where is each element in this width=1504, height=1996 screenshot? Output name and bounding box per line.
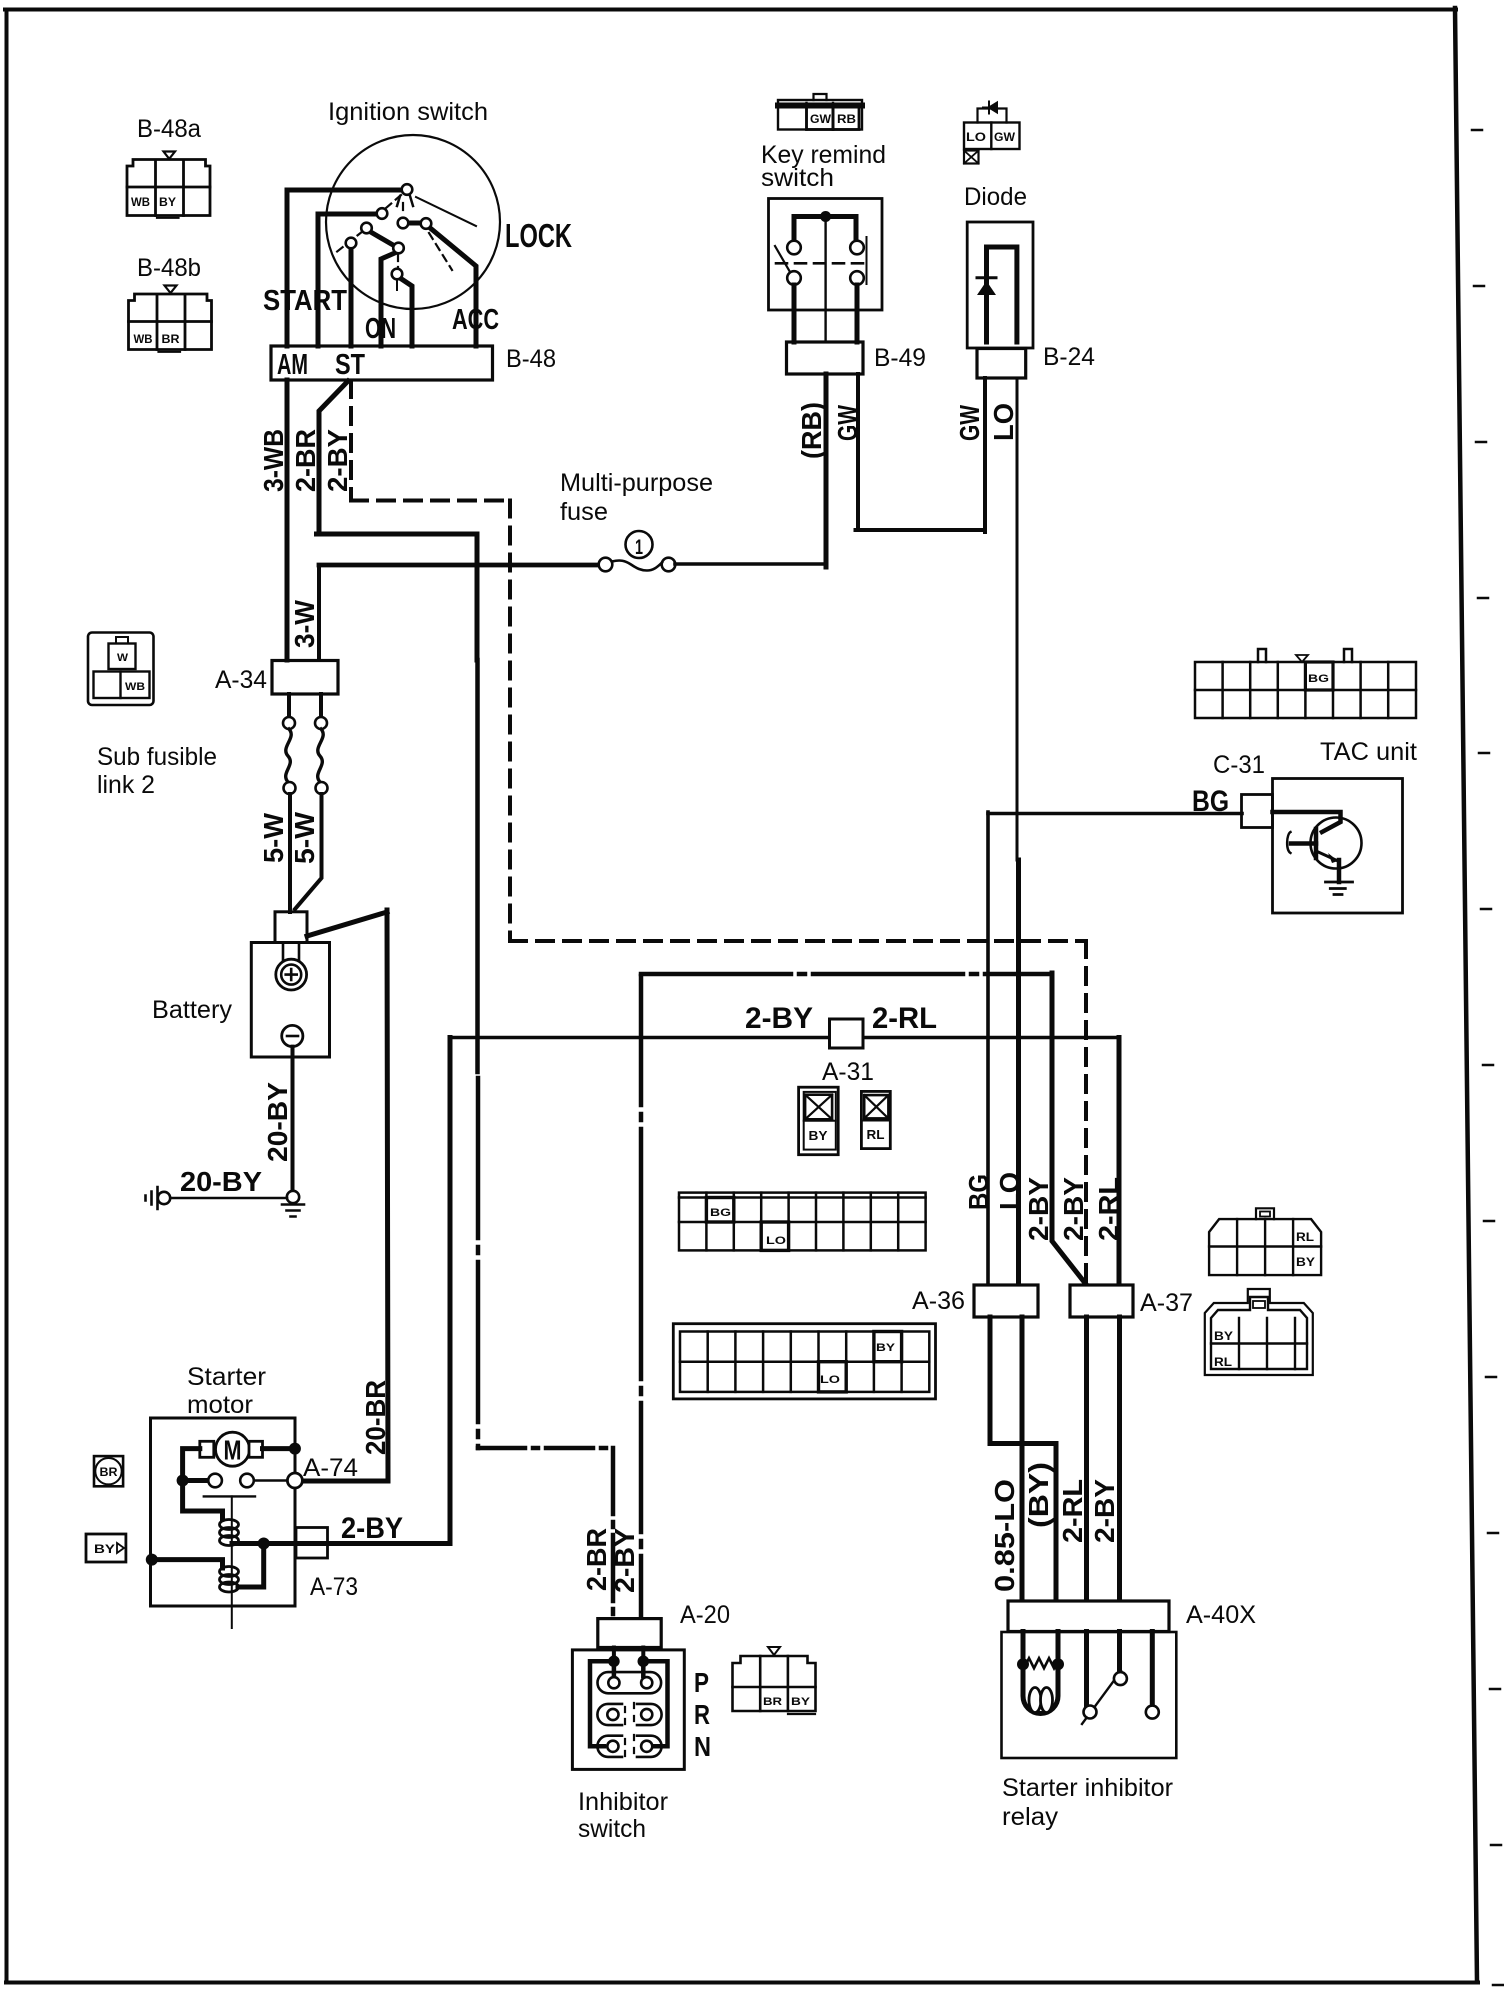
solenoid contact row <box>188 1478 209 1483</box>
pull-in coil <box>220 1520 239 1546</box>
connector grid RL/BY (4x2) <box>1209 1208 1321 1275</box>
wire junction down to hold coil bottom <box>238 1544 264 1588</box>
diode top connector (LO GW cells) <box>964 102 1020 164</box>
wire 5-W left down to battery <box>288 794 292 912</box>
svg-text:fuse: fuse <box>560 498 608 526</box>
R contact stadium (split) <box>597 1703 661 1725</box>
junction dot motor/rail <box>289 1443 301 1455</box>
svg-text:A-74: A-74 <box>303 1454 358 1482</box>
connector symbol BR (square with circle) <box>94 1456 123 1486</box>
relay coil feed wires <box>1023 1632 1058 1662</box>
svg-text:Inhibitor: Inhibitor <box>578 1788 668 1816</box>
wires A-20 into inhibitor switch <box>614 1648 643 1663</box>
wire BG from riser to C-31 <box>988 812 1242 816</box>
svg-text:B-48b: B-48b <box>137 254 201 282</box>
svg-text:5-W: 5-W <box>289 811 320 864</box>
connector A-37 box <box>1070 1285 1133 1317</box>
solenoid plunger line <box>231 1496 233 1628</box>
contact strip right <box>866 237 868 284</box>
svg-text:WB: WB <box>125 681 145 693</box>
resistor (relay) <box>1026 1658 1057 1668</box>
svg-text:Starter inhibitor: Starter inhibitor <box>1002 1774 1173 1802</box>
svg-text:2-RL: 2-RL <box>872 1002 937 1035</box>
svg-text:BG: BG <box>963 1174 994 1210</box>
wire coil output to A-73 <box>232 1541 296 1546</box>
fuse number 1 circled <box>626 531 653 558</box>
svg-text:Sub fusible: Sub fusible <box>97 743 217 771</box>
svg-text:ACC: ACC <box>452 304 499 336</box>
svg-text:B-24: B-24 <box>1043 343 1095 371</box>
svg-text:RB: RB <box>837 114 856 126</box>
svg-text:RL: RL <box>1214 1357 1232 1369</box>
svg-text:Diode: Diode <box>964 183 1027 211</box>
svg-text:2-BY: 2-BY <box>341 1512 403 1545</box>
wire centre contact bar <box>406 221 423 226</box>
svg-text:2-BY: 2-BY <box>322 429 353 492</box>
svg-text:LO: LO <box>766 1235 787 1247</box>
svg-text:2-RL: 2-RL <box>1093 1177 1124 1241</box>
junction dot box edge <box>146 1554 158 1566</box>
wire 2-BY / 2-RL main horizontal <box>450 1036 1119 1040</box>
svg-text:20-BR: 20-BR <box>360 1380 391 1455</box>
wire 2-RL (A-37 to A-40X) <box>1084 1317 1089 1601</box>
svg-text:link 2: link 2 <box>97 771 155 799</box>
hold-in coil <box>220 1567 239 1593</box>
wire 2-BR long dash-dot drop (to A-20) <box>475 660 480 1072</box>
svg-text:TAC unit: TAC unit <box>1320 738 1417 766</box>
svg-text:GW: GW <box>994 132 1015 144</box>
starter motor box <box>151 1418 296 1606</box>
svg-text:motor: motor <box>187 1391 253 1419</box>
connector A-20 box <box>598 1619 661 1648</box>
binder tick marks right edge <box>1472 130 1503 1985</box>
battery box <box>251 943 329 1058</box>
svg-text:BY: BY <box>1214 1331 1233 1343</box>
svg-text:20-BY: 20-BY <box>180 1166 262 1197</box>
wire 5-W right down and diagonal to battery post <box>295 794 322 909</box>
wire fuse feed line (3-W tap to ignition feed) <box>319 563 599 568</box>
switch arm <box>775 246 790 272</box>
diode box <box>967 222 1033 348</box>
svg-text:P: P <box>694 1667 709 1698</box>
connector B-24 box <box>977 349 1026 379</box>
svg-text:GW: GW <box>810 114 831 126</box>
TAC connector grid (8x2) <box>1195 649 1416 718</box>
wire 0.85-LO (A-36 to A-40X) <box>1020 1317 1025 1601</box>
svg-text:RL: RL <box>867 1128 885 1142</box>
relay aux contact wire <box>1150 1632 1155 1706</box>
wire 20-BR riser down to A-74 <box>302 910 388 1481</box>
wire battery feed diagonal to starter riser <box>307 912 387 936</box>
relay coil U loop <box>1023 1664 1058 1713</box>
svg-text:Battery: Battery <box>152 996 233 1024</box>
svg-text:AM: AM <box>277 349 308 381</box>
ignition switch wiper pointer line to LOCK <box>416 197 476 226</box>
svg-text:2-BY: 2-BY <box>1023 1177 1054 1241</box>
ground node right (battery earth) <box>287 1191 299 1203</box>
svg-text:ST: ST <box>335 349 365 381</box>
TAC unit box <box>1273 779 1403 914</box>
wire ACC diagonal and down to B-48 <box>429 227 476 346</box>
diode internal loop wire <box>987 247 1017 342</box>
svg-text:2-BY: 2-BY <box>609 1528 640 1593</box>
wire 2-BY solid branch down to A-37 <box>1052 973 1085 1283</box>
sub fusible link 2 right element <box>319 694 323 717</box>
wire motor to right rail <box>263 1446 296 1451</box>
fusible link symbol BY (A-31) <box>799 1087 839 1155</box>
svg-text:A-73: A-73 <box>310 1573 358 1601</box>
fusible link symbol RL (A-31) <box>861 1091 890 1148</box>
svg-text:C-31: C-31 <box>1213 751 1265 779</box>
junction dots inhibitor feed <box>608 1656 620 1668</box>
ignition switch wiper tail ticks <box>397 196 413 206</box>
svg-text:A-20: A-20 <box>680 1601 730 1629</box>
svg-text:3-W: 3-W <box>289 599 320 648</box>
relay common wire <box>1084 1632 1089 1706</box>
svg-text:2-RL: 2-RL <box>1057 1479 1088 1543</box>
svg-text:BG: BG <box>1308 673 1329 685</box>
junction dot hold coil <box>258 1538 270 1550</box>
svg-text:BY: BY <box>1296 1257 1315 1269</box>
inhibitor switch outer box <box>572 1650 684 1770</box>
wire AM down to B-48 <box>285 190 290 346</box>
wire GW link B-49 to B-24 <box>856 374 986 532</box>
ignition switch body circle <box>326 135 500 309</box>
wire BG riser down to A-36 <box>986 812 990 1285</box>
connector B-49 box <box>787 342 864 374</box>
connector A-31 box <box>830 1019 864 1048</box>
svg-text:Ignition switch: Ignition switch <box>328 98 488 126</box>
svg-text:R: R <box>694 1699 710 1730</box>
connector B-48a (3x2 pin grid) <box>127 152 210 218</box>
wire 20-BY ground link <box>170 1197 287 1200</box>
svg-text:relay: relay <box>1002 1803 1059 1831</box>
battery terminal connector box <box>275 912 307 943</box>
svg-text:LO: LO <box>994 1172 1025 1210</box>
contact stubs <box>794 217 856 241</box>
connector A-40X box <box>1008 1601 1169 1632</box>
relay contact circles <box>1084 1672 1159 1719</box>
svg-text:W: W <box>117 652 129 664</box>
svg-text:BY: BY <box>94 1544 115 1556</box>
wire left rail to pull-in coil <box>183 1486 223 1519</box>
wire stubs to P contacts <box>614 1661 643 1676</box>
wire fuse output to (RB) riser <box>675 562 826 566</box>
svg-text:B-49: B-49 <box>874 344 926 372</box>
svg-text:20-BY: 20-BY <box>262 1082 293 1162</box>
inhibitor switch contact frame <box>590 1661 668 1746</box>
svg-text:ON: ON <box>365 313 396 345</box>
connector B-48 box <box>271 346 493 380</box>
svg-text:WB: WB <box>134 334 153 346</box>
svg-text:(BY): (BY) <box>1023 1462 1054 1528</box>
connector symbol W/WB (battery main connector) <box>88 633 154 706</box>
wires lower contacts to B-49 <box>794 285 857 342</box>
svg-text:START: START <box>263 285 347 317</box>
wire BG jog to (BY) pin <box>990 1317 1056 1601</box>
wire 2-BY dashed (B-48 down, right, down long run) <box>351 381 1086 1283</box>
svg-text:3-WB: 3-WB <box>258 429 289 492</box>
wire through A-73 <box>296 1541 328 1546</box>
wire 20-BY battery negative down <box>291 1047 295 1191</box>
wire box edge to hold coil top <box>153 1560 223 1568</box>
connector C-31 box <box>1242 795 1273 828</box>
svg-text:A-37: A-37 <box>1140 1289 1193 1317</box>
svg-text:BR: BR <box>100 1467 119 1479</box>
pin grid 1 (9x2, BG/LO) <box>679 1193 926 1251</box>
key remind switch top bus wire <box>794 214 856 219</box>
svg-text:5-W: 5-W <box>258 812 289 863</box>
pin grid 2 (9x2 double border, LO/BY) <box>673 1324 935 1399</box>
wire ST contact feed <box>318 212 376 217</box>
ignition switch dashed position lines <box>334 195 452 270</box>
wire LO long riser B-24 down to A-36 <box>1016 378 1019 860</box>
relay coil turns <box>1029 1688 1041 1713</box>
svg-text:BR: BR <box>763 1696 782 1708</box>
N contact stadium (split) <box>597 1735 661 1757</box>
svg-text:BG: BG <box>710 1207 731 1219</box>
svg-text:0.85-LO: 0.85-LO <box>989 1479 1020 1592</box>
svg-text:2-BR: 2-BR <box>581 1528 612 1591</box>
wire ST down to B-48 <box>316 214 321 346</box>
wire ON diagonal from contact <box>369 231 393 245</box>
key remind switch centre wire to B-49 <box>824 217 826 343</box>
svg-text:A-34: A-34 <box>215 666 267 694</box>
svg-text:Multi-purpose: Multi-purpose <box>560 469 713 497</box>
wire 2-RL drop to A-37 <box>1117 1038 1122 1286</box>
wire LOCK contact to B-48 <box>349 248 354 346</box>
svg-text:switch: switch <box>578 1815 646 1843</box>
relay switch arm <box>1082 1671 1121 1724</box>
relay NO contact wire <box>1117 1632 1122 1672</box>
wire dash-dot horizontal (2-BY inhibitor branch) <box>641 972 1052 977</box>
key remind switch contacts <box>787 241 864 285</box>
diode symbol <box>977 276 996 279</box>
transistor Q1 (npn with earth) <box>1287 818 1361 895</box>
wire dash-dot vertical at 641 down to A-20 <box>639 976 644 1618</box>
svg-text:B-48a: B-48a <box>137 115 201 143</box>
junction dots resistor <box>1017 1658 1029 1670</box>
svg-text:LO: LO <box>820 1374 841 1386</box>
P contact stadium <box>598 1672 662 1693</box>
A-74 terminal circle on box edge <box>287 1473 302 1488</box>
svg-text:RL: RL <box>1296 1232 1314 1244</box>
wire ON elbow down to B-48 <box>381 252 397 346</box>
svg-text:LO: LO <box>988 403 1019 441</box>
svg-text:LOCK: LOCK <box>505 217 572 254</box>
starter inhibitor relay box <box>1002 1632 1177 1758</box>
battery positive terminal <box>276 943 307 990</box>
svg-text:GW: GW <box>954 405 985 441</box>
connector A-36 box <box>974 1285 1038 1317</box>
dashed actuator line <box>776 262 865 265</box>
svg-text:2-BR: 2-BR <box>290 429 321 492</box>
svg-text:BY: BY <box>809 1129 829 1143</box>
svg-text:2-BY: 2-BY <box>1089 1479 1120 1543</box>
svg-text:BY: BY <box>159 197 176 209</box>
wire (RB) riser up to B-49 <box>824 374 829 567</box>
connector A-73 box on motor edge <box>296 1528 328 1559</box>
svg-text:2-BY: 2-BY <box>745 1002 813 1035</box>
connector symbol BY (box with arrow) <box>86 1534 126 1562</box>
connector grid BY/RL (4x2 double border) <box>1205 1289 1313 1375</box>
ground node left (body earth) <box>158 1192 170 1204</box>
fuse 1 element <box>599 558 676 572</box>
svg-text:WB: WB <box>131 197 150 209</box>
lower contact tick <box>396 280 398 290</box>
wire motor left to contact rail <box>183 1449 200 1478</box>
wire 3-W down to A-34 <box>317 565 321 660</box>
wire lower contact elbow to B-48 <box>400 278 412 346</box>
wire AM contact feed <box>287 188 401 193</box>
key remind switch box <box>769 199 883 311</box>
svg-text:2-BY: 2-BY <box>1058 1177 1089 1241</box>
svg-text:BY: BY <box>791 1696 811 1708</box>
svg-text:switch: switch <box>761 164 834 192</box>
sub fusible link 2 left element <box>287 694 291 717</box>
wire 2-BY (A-37 to A-40X) <box>1117 1317 1122 1601</box>
svg-text:(RB): (RB) <box>796 402 827 459</box>
junction dot left rail <box>177 1475 189 1487</box>
svg-text:B-48: B-48 <box>506 345 556 373</box>
svg-text:A-31: A-31 <box>822 1058 874 1086</box>
solenoid moving contact bar <box>204 1495 255 1497</box>
connector A-34 box <box>272 661 338 695</box>
svg-text:A-36: A-36 <box>912 1287 965 1315</box>
wire 2-BY drop to A-73 <box>328 1038 451 1544</box>
connector B-48b (3x2 pin grid) <box>129 286 212 352</box>
battery negative terminal <box>282 1025 303 1046</box>
wire 3-WB (B-48 AM down to A-34) <box>285 380 290 660</box>
junction dot <box>820 211 831 222</box>
svg-text:N: N <box>694 1731 711 1762</box>
svg-text:Starter: Starter <box>187 1363 266 1391</box>
svg-text:BY: BY <box>876 1342 896 1354</box>
motor M armature <box>200 1432 263 1466</box>
svg-text:LO: LO <box>966 132 986 144</box>
wire 2-BR (B-48 ST diagonal, down, right, down) <box>317 381 478 660</box>
connector grid BR/BY (3x2) <box>733 1647 816 1714</box>
ignition switch contact terminals (open circles) <box>346 184 432 279</box>
svg-text:1: 1 <box>635 536 643 559</box>
svg-text:A-40X: A-40X <box>1186 1601 1256 1629</box>
svg-text:M: M <box>224 1435 242 1466</box>
TAC internal lead to transistor <box>1273 812 1341 832</box>
connector strip above key remind switch (GW RB cells) <box>778 94 862 130</box>
svg-text:BR: BR <box>162 334 181 346</box>
